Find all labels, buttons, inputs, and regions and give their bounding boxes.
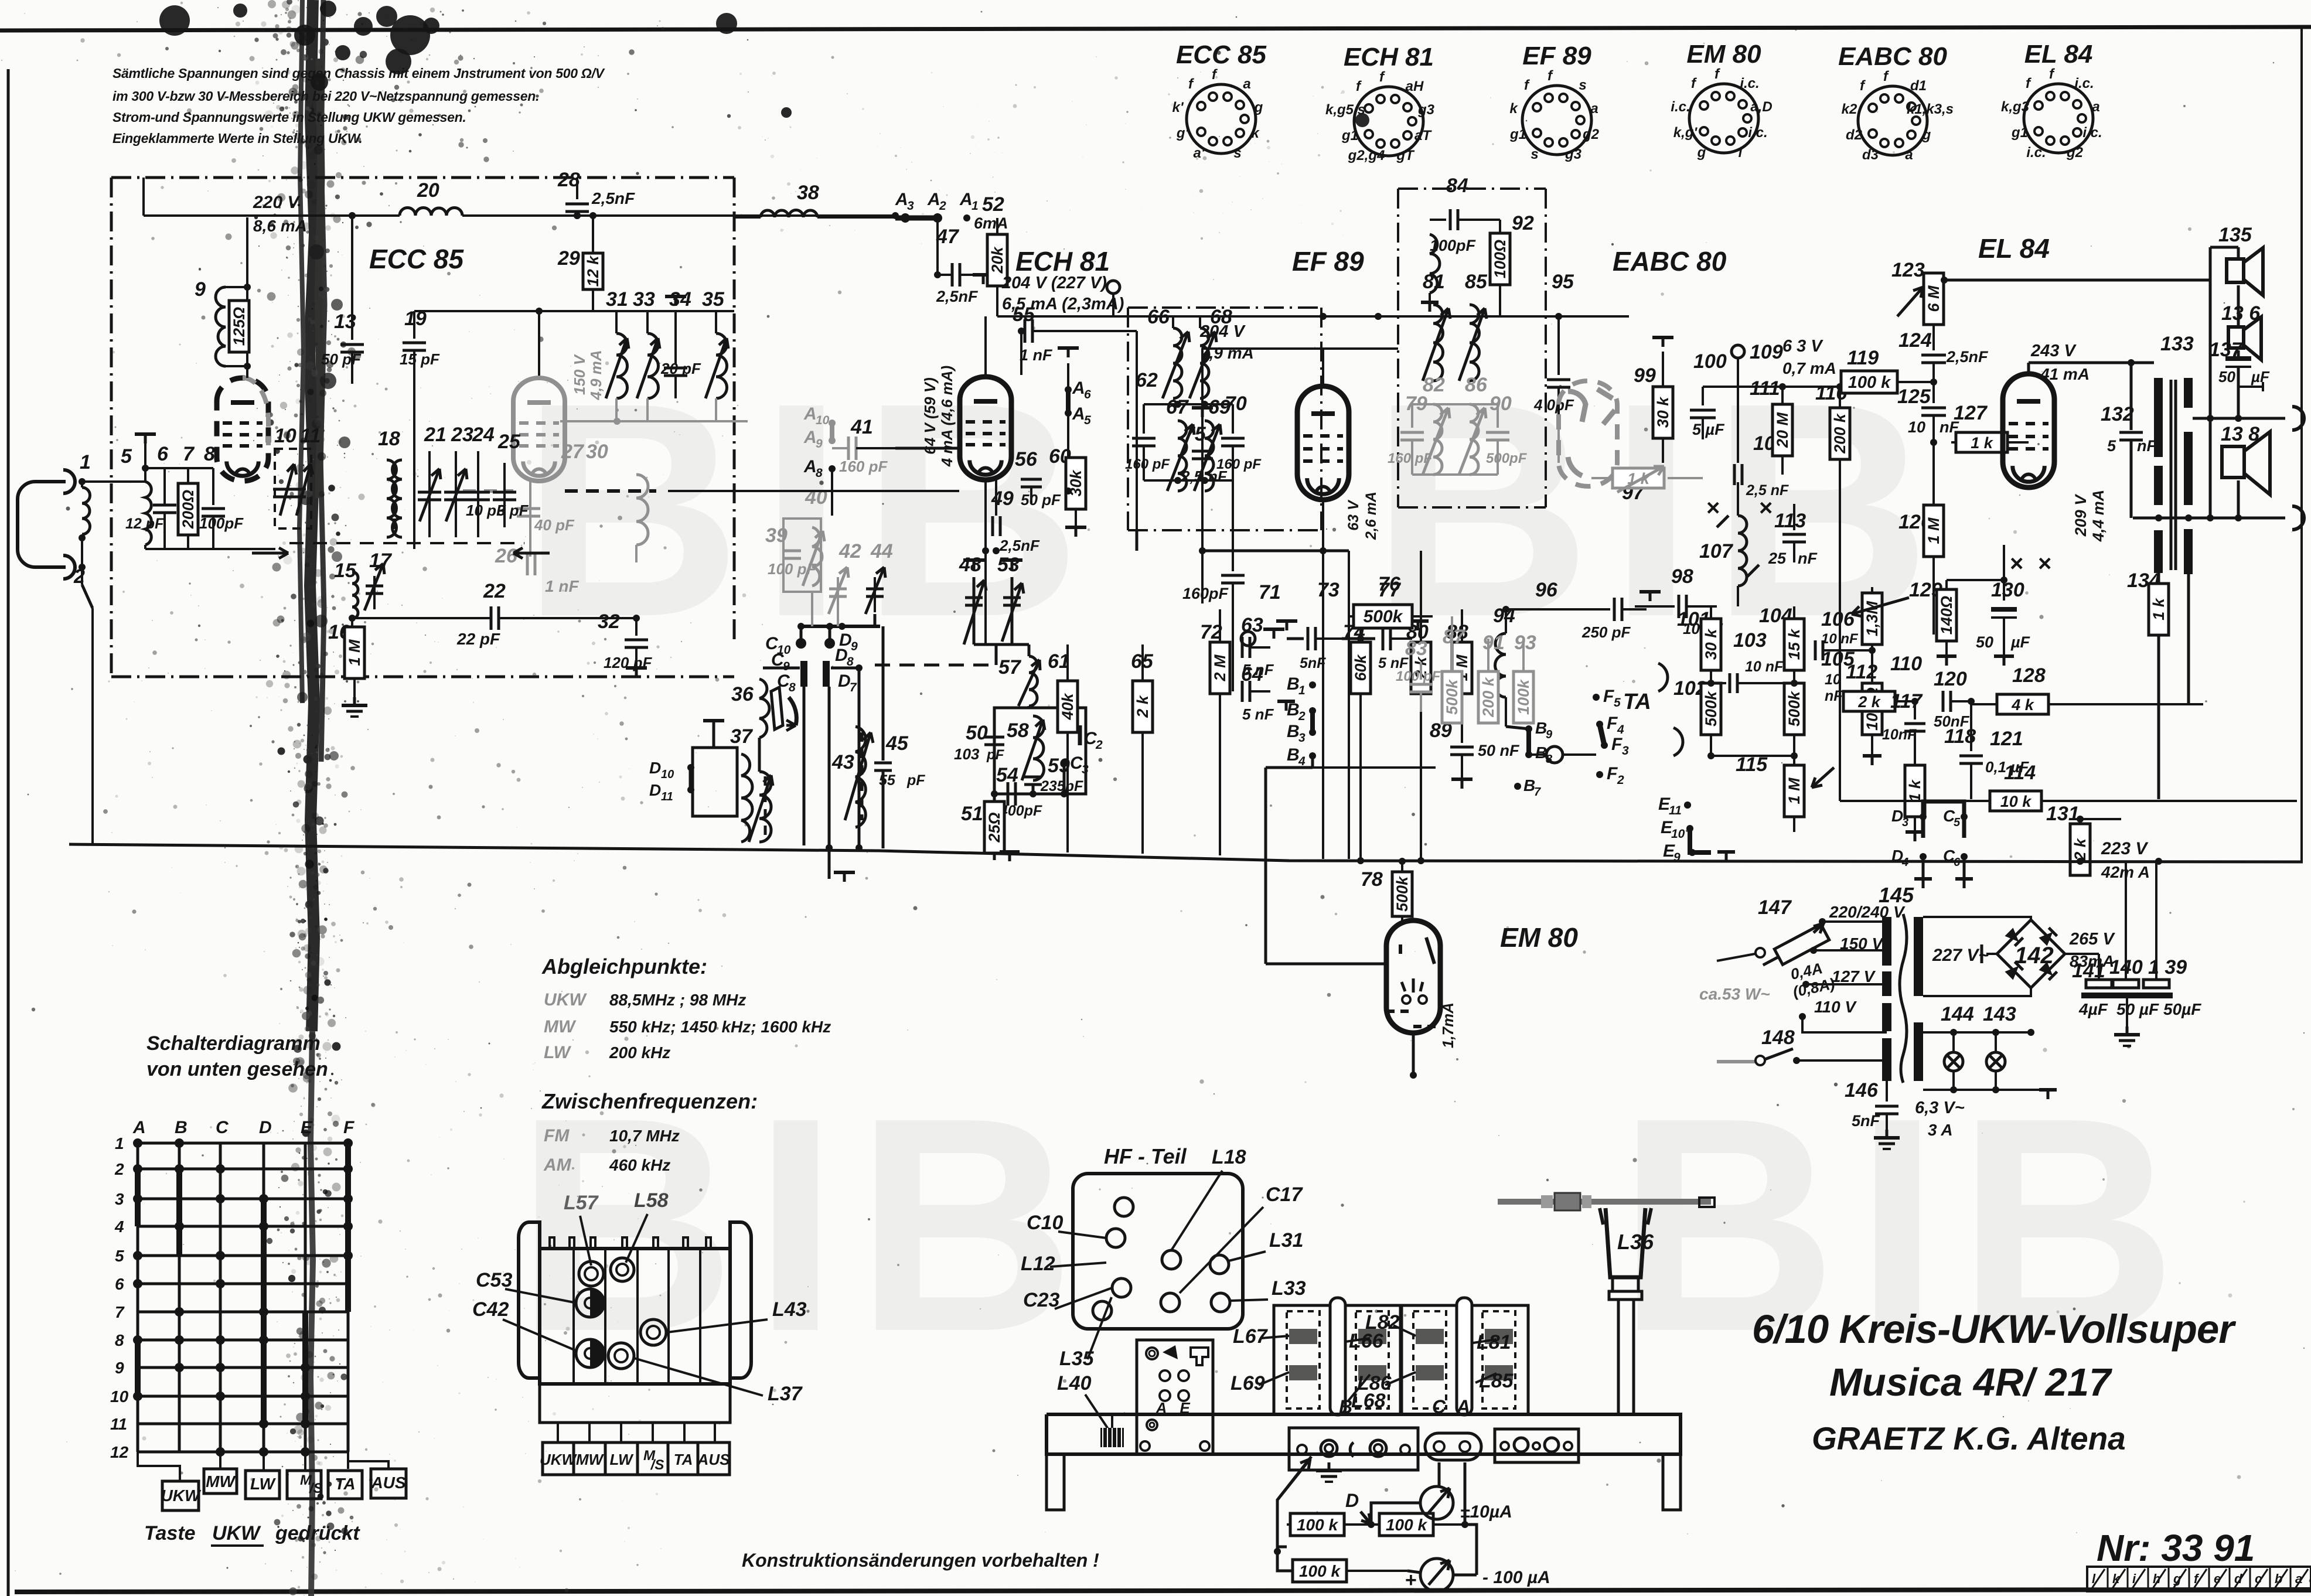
coil pack dividers <box>572 1249 575 1384</box>
svg-text:4,4 mA: 4,4 mA <box>2090 490 2107 543</box>
tube socket EABC 80 <box>1858 86 1927 155</box>
svg-text:50 pF: 50 pF <box>321 350 362 368</box>
svg-text:132: 132 <box>2101 403 2134 425</box>
meter +-10uA <box>1420 1486 1453 1519</box>
svg-text:75: 75 <box>1184 423 1206 445</box>
svg-text:D: D <box>649 781 661 799</box>
svg-text:g': g' <box>1176 125 1189 141</box>
svg-text:92: 92 <box>1512 212 1534 234</box>
svg-text:nF: nF <box>1798 550 1818 567</box>
svg-text:4 k: 4 k <box>2011 696 2035 714</box>
svg-text:7: 7 <box>1534 786 1541 799</box>
svg-text:10: 10 <box>1671 827 1685 841</box>
junction <box>892 212 899 219</box>
svg-text:pF: pF <box>906 772 925 789</box>
svg-text:1 M: 1 M <box>1785 777 1803 804</box>
svg-text:131: 131 <box>2046 803 2080 825</box>
svg-text:UKW: UKW <box>212 1522 261 1544</box>
svg-text:k': k' <box>1172 100 1184 115</box>
svg-text:140Ω: 140Ω <box>1938 596 1955 635</box>
AM dashed bus with arrows <box>289 542 524 544</box>
svg-text:EM 80: EM 80 <box>1686 40 1761 69</box>
svg-text:10: 10 <box>1825 671 1841 688</box>
svg-text:Musica 4R/ 217: Musica 4R/ 217 <box>1829 1360 2112 1404</box>
svg-text:125: 125 <box>1897 386 1931 408</box>
terminal circle mid <box>1241 632 1255 646</box>
svg-text:5: 5 <box>2107 437 2116 455</box>
svg-text:50 pF: 50 pF <box>1021 491 1061 509</box>
svg-text:TA: TA <box>335 1475 355 1493</box>
core lines <box>2170 380 2173 570</box>
svg-text:D: D <box>838 671 851 691</box>
svg-text:4 mA (4,6 mA): 4 mA (4,6 mA) <box>938 366 956 467</box>
svg-text:L57: L57 <box>564 1192 599 1214</box>
svg-text:5: 5 <box>1614 696 1621 710</box>
svg-text:10,7 MHz: 10,7 MHz <box>609 1127 680 1145</box>
svg-text:3: 3 <box>1622 744 1629 758</box>
svg-text:F: F <box>1607 764 1618 783</box>
svg-text:7: 7 <box>115 1303 125 1321</box>
svg-text:A: A <box>803 457 817 476</box>
svg-text:ECH 81: ECH 81 <box>1015 246 1110 277</box>
svg-text:g2: g2 <box>2066 145 2084 161</box>
HF-Teil box <box>1073 1174 1243 1329</box>
svg-text:C: C <box>216 1118 229 1137</box>
triode ECC85 b (gray) <box>513 378 565 481</box>
terminal circle <box>1107 281 1120 294</box>
svg-text:2: 2 <box>1617 773 1624 787</box>
chassis legs <box>1047 1454 1064 1510</box>
svg-text:C17: C17 <box>1266 1184 1303 1206</box>
svg-text:a: a <box>2092 99 2099 115</box>
svg-text:100 k: 100 k <box>1848 373 1891 392</box>
coil pack body <box>527 1222 554 1266</box>
svg-text:FM: FM <box>544 1126 570 1145</box>
svg-text:AUS: AUS <box>697 1451 731 1468</box>
UKW tuner dash-dot box <box>111 176 734 179</box>
svg-text:64: 64 <box>1241 663 1263 686</box>
100k resistors <box>1290 1513 1344 1536</box>
svg-text:Strom-und Spannungswerte in St: Strom-und Spannungswerte in Stellung UKW… <box>113 110 466 125</box>
svg-text:26: 26 <box>495 545 518 567</box>
svg-text:148: 148 <box>1761 1027 1795 1049</box>
svg-text:d1: d1 <box>1910 78 1927 94</box>
svg-text:EM 80: EM 80 <box>1500 922 1578 953</box>
svg-text:AUS: AUS <box>370 1474 405 1492</box>
svg-text:L18: L18 <box>1212 1146 1246 1168</box>
svg-text:L12: L12 <box>1021 1253 1055 1275</box>
svg-text:A: A <box>803 404 817 424</box>
svg-text:gT: gT <box>1396 148 1415 163</box>
svg-text:A: A <box>1072 404 1085 424</box>
svg-text:×: × <box>2038 551 2051 577</box>
svg-text:160 pF: 160 pF <box>1125 456 1170 472</box>
svg-text:D: D <box>835 646 848 665</box>
svg-text:58: 58 <box>1007 719 1029 742</box>
svg-text:a: a <box>1243 76 1250 92</box>
svg-text:8: 8 <box>204 443 215 465</box>
svg-text:48: 48 <box>959 554 981 576</box>
EF89 cathode down <box>1322 500 1324 859</box>
svg-text:40: 40 <box>805 486 827 509</box>
svg-text:8: 8 <box>789 681 796 694</box>
svg-text:F: F <box>1607 714 1618 733</box>
svg-text:F: F <box>343 1118 355 1137</box>
ferrite slug 36 <box>771 687 783 729</box>
svg-text:1 M: 1 M <box>346 639 363 666</box>
svg-text:1 k: 1 k <box>1906 779 1924 802</box>
svg-text:125Ω: 125Ω <box>230 307 248 346</box>
EF89 feed wire <box>1202 347 1398 350</box>
terminals C10 D9 <box>800 626 803 640</box>
svg-text:aH: aH <box>1406 79 1424 94</box>
verticals down to bus <box>803 687 806 845</box>
svg-text:3: 3 <box>1298 731 1306 745</box>
svg-text:9: 9 <box>115 1359 124 1377</box>
knob L37 <box>608 1343 634 1369</box>
svg-text:160 pF: 160 pF <box>839 458 888 475</box>
svg-text:127: 127 <box>1954 402 1988 424</box>
svg-text:20 pF: 20 pF <box>660 360 701 377</box>
svg-text:5nF: 5nF <box>1300 655 1326 671</box>
svg-text:k: k <box>1251 125 1260 141</box>
svg-text:C10: C10 <box>1027 1212 1063 1234</box>
mid junction line <box>2193 417 2285 420</box>
svg-text:35: 35 <box>702 288 725 311</box>
svg-text:265 V: 265 V <box>2069 930 2115 949</box>
svg-text:2,5nF: 2,5nF <box>936 288 979 305</box>
svg-text:EL 84: EL 84 <box>1978 233 2050 264</box>
svg-text:200 k: 200 k <box>1480 676 1497 718</box>
svg-text:k,g3: k,g3 <box>2001 99 2030 115</box>
svg-text:100 pF: 100 pF <box>1396 669 1441 684</box>
svg-text:500k: 500k <box>1393 875 1411 912</box>
svg-text:147: 147 <box>1758 896 1792 919</box>
svg-text:85: 85 <box>1465 271 1488 293</box>
svg-text:56: 56 <box>1015 448 1038 470</box>
svg-text:49: 49 <box>991 487 1014 510</box>
svg-text:B: B <box>1339 1396 1352 1417</box>
svg-text:100k: 100k <box>1515 678 1532 715</box>
svg-text:3: 3 <box>907 199 914 213</box>
svg-text:×: × <box>1759 495 1773 521</box>
svg-text:10 nF: 10 nF <box>1821 631 1859 647</box>
svg-text:5: 5 <box>1954 816 1961 829</box>
svg-text:223 V: 223 V <box>2101 839 2149 858</box>
svg-text:121: 121 <box>1990 728 2023 750</box>
svg-text:81: 81 <box>1423 271 1445 293</box>
svg-text:L37: L37 <box>768 1383 803 1405</box>
svg-text:40 pF: 40 pF <box>534 516 575 534</box>
svg-text:2,5nF: 2,5nF <box>591 189 635 207</box>
svg-text:15 pF: 15 pF <box>400 350 440 368</box>
svg-text:8: 8 <box>816 466 823 480</box>
svg-text:110 V: 110 V <box>1814 998 1857 1016</box>
svg-text:120 pF: 120 pF <box>604 654 652 671</box>
svg-text:150 V: 150 V <box>571 353 588 395</box>
primary bar left <box>2154 378 2163 457</box>
svg-text:1: 1 <box>1298 684 1306 697</box>
bottom line <box>2133 517 2285 520</box>
border frame left <box>7 69 10 1596</box>
svg-text:×: × <box>1706 495 1720 521</box>
svg-text:L58: L58 <box>634 1189 669 1212</box>
EM80 tube <box>1386 920 1440 1033</box>
svg-text:5: 5 <box>121 445 132 468</box>
right panel <box>1495 1429 1579 1462</box>
border frame top <box>0 27 2311 30</box>
diffuse speckle left band <box>496 647 496 647</box>
svg-text:100 k: 100 k <box>1297 1516 1338 1534</box>
svg-text:500k: 500k <box>1702 690 1720 727</box>
svg-text:1 39: 1 39 <box>2148 956 2187 978</box>
svg-text:53: 53 <box>997 554 1020 576</box>
gray grid wire <box>463 489 513 493</box>
svg-text:TA: TA <box>674 1451 693 1468</box>
svg-text:123: 123 <box>1891 259 1925 281</box>
svg-text:124: 124 <box>1898 329 1932 352</box>
svg-text:200 k: 200 k <box>1831 412 1849 454</box>
svg-text:8,6 mA: 8,6 mA <box>253 217 307 235</box>
svg-text:L33: L33 <box>1272 1277 1306 1300</box>
wires from bus to caps <box>2125 861 2127 980</box>
svg-text:250 pF: 250 pF <box>1581 623 1631 641</box>
svg-text:11: 11 <box>300 425 321 447</box>
cap 40pF at 95 <box>1557 316 1560 375</box>
svg-text:3: 3 <box>1902 816 1908 829</box>
svg-text:2 k: 2 k <box>2071 837 2089 861</box>
svg-text:C: C <box>1432 1396 1446 1417</box>
svg-text:Schalterdiagramm: Schalterdiagramm <box>146 1032 321 1055</box>
buttons row <box>162 1481 199 1510</box>
knob C42 trimmer <box>576 1339 604 1367</box>
svg-text:99: 99 <box>1634 364 1656 387</box>
svg-text:k1,k3,s: k1,k3,s <box>1907 101 1954 117</box>
svg-text:MW: MW <box>544 1017 577 1036</box>
wire antenna to coil 5 <box>82 480 145 483</box>
svg-text:2,5nF: 2,5nF <box>1946 348 1989 366</box>
svg-text:5: 5 <box>115 1247 124 1265</box>
wire 119 to 123 column <box>1930 378 1937 386</box>
svg-text:7: 7 <box>850 681 857 694</box>
gray coupling wire <box>560 420 748 422</box>
svg-text:nF: nF <box>1825 688 1843 704</box>
svg-text:10 nF: 10 nF <box>1745 659 1784 675</box>
svg-text:D: D <box>649 759 661 777</box>
svg-text:21: 21 <box>424 424 446 446</box>
svg-text:78: 78 <box>1361 868 1383 891</box>
svg-text:Abgleichpunkte:: Abgleichpunkte: <box>541 954 707 978</box>
svg-text:k: k <box>1509 101 1518 117</box>
svg-text:im 300 V-bzw 30 V-Messbereich: im 300 V-bzw 30 V-Messbereich bei 220 V~… <box>113 88 539 104</box>
svg-text:12: 12 <box>110 1443 129 1461</box>
bottom rail with arrow <box>145 548 275 550</box>
svg-text:227 V~: 227 V~ <box>1932 946 1989 965</box>
svg-text:119: 119 <box>1847 347 1879 369</box>
svg-text:460 kHz: 460 kHz <box>609 1156 670 1174</box>
svg-text:36: 36 <box>731 683 754 705</box>
svg-text:10: 10 <box>1908 418 1925 436</box>
svg-text:L82: L82 <box>1365 1311 1400 1334</box>
svg-text:6 3 V: 6 3 V <box>1782 337 1823 356</box>
svg-text:64 V (59 V): 64 V (59 V) <box>921 377 939 455</box>
svg-text:9: 9 <box>851 640 858 653</box>
svg-text:50 µF: 50 µF <box>2116 1000 2159 1018</box>
svg-text:25Ω: 25Ω <box>986 812 1003 843</box>
ink stain vertical streak <box>299 0 325 1596</box>
svg-text:109: 109 <box>1750 341 1783 363</box>
svg-text:38: 38 <box>797 182 819 204</box>
svg-text:k2: k2 <box>1842 101 1857 117</box>
svg-text:23: 23 <box>451 424 473 446</box>
svg-text:30 k: 30 k <box>1654 396 1672 428</box>
svg-text:4µF: 4µF <box>2078 1000 2108 1018</box>
svg-text:45: 45 <box>885 732 909 755</box>
svg-text:1 M: 1 M <box>1925 517 1942 544</box>
svg-text:111: 111 <box>1750 377 1780 400</box>
svg-text:9: 9 <box>816 437 823 451</box>
tube socket ECH 81 <box>1354 87 1423 156</box>
svg-text:6: 6 <box>115 1275 124 1293</box>
antenna connectors <box>63 470 75 493</box>
svg-text:6mA: 6mA <box>974 214 1008 232</box>
measurement circuit <box>1277 1457 1311 1547</box>
svg-text:41: 41 <box>850 416 873 438</box>
svg-text:i.c.: i.c. <box>2026 145 2046 161</box>
main bus <box>69 844 2303 862</box>
svg-text:L69: L69 <box>1231 1372 1265 1394</box>
svg-text:5 nF: 5 nF <box>1242 705 1274 723</box>
EF89 tube <box>1297 386 1349 500</box>
svg-text:k,g': k,g' <box>1673 125 1698 141</box>
svg-text:93: 93 <box>1514 632 1536 654</box>
svg-text:110: 110 <box>1890 653 1922 675</box>
svg-text:160 pF: 160 pF <box>1388 451 1433 466</box>
border frame bottom <box>15 1590 2311 1592</box>
svg-text:86: 86 <box>1465 374 1488 396</box>
svg-text:135: 135 <box>2218 224 2252 246</box>
svg-text:4: 4 <box>114 1218 124 1236</box>
svg-text:112: 112 <box>1846 661 1877 683</box>
grid bus of triode 2 <box>414 310 734 312</box>
svg-text:50: 50 <box>1976 633 1993 651</box>
svg-text:55: 55 <box>879 772 896 789</box>
svg-text:50nF: 50nF <box>1934 712 1970 730</box>
svg-text:g: g <box>1922 127 1931 143</box>
grid1 wire to osc <box>984 480 987 644</box>
svg-text:6: 6 <box>1084 388 1091 401</box>
svg-text:10: 10 <box>661 768 674 781</box>
svg-text:51: 51 <box>961 803 983 825</box>
svg-text:500k: 500k <box>1364 607 1403 626</box>
svg-text:i.c.: i.c. <box>1740 76 1759 91</box>
svg-text:Zwischenfrequenzen:: Zwischenfrequenzen: <box>541 1089 758 1113</box>
svg-text:3: 3 <box>1082 763 1089 776</box>
svg-text:µF: µF <box>2010 633 2031 651</box>
svg-text:Nr: 33 91: Nr: 33 91 <box>2097 1527 2255 1569</box>
svg-text:160pF: 160pF <box>1182 585 1229 602</box>
svg-text:L43: L43 <box>772 1298 807 1321</box>
terminal circle b8 <box>1546 746 1563 763</box>
svg-text:ECH 81: ECH 81 <box>1344 43 1434 71</box>
svg-text:µF: µF <box>2251 368 2270 386</box>
svg-text:LW: LW <box>250 1475 277 1493</box>
svg-text:g1: g1 <box>2011 125 2028 141</box>
svg-text:F: F <box>1611 735 1623 754</box>
wire 220V to tube <box>246 217 248 280</box>
switch grid lines <box>137 1143 139 1452</box>
svg-text:C53: C53 <box>476 1269 512 1291</box>
svg-text:6: 6 <box>157 443 169 465</box>
svg-text:3 A: 3 A <box>1928 1121 1953 1139</box>
svg-text:20k: 20k <box>989 245 1006 274</box>
heater wire <box>1703 386 1840 388</box>
svg-text:22 pF: 22 pF <box>456 630 500 648</box>
secondary small bars <box>1914 1032 1922 1066</box>
wire from dash-dot box left <box>144 214 247 217</box>
svg-text:113: 113 <box>1774 510 1806 532</box>
svg-text:10: 10 <box>110 1387 129 1406</box>
svg-text:25: 25 <box>497 431 521 453</box>
svg-text:62: 62 <box>1136 369 1158 391</box>
ECH81 anode drop to IF can <box>1136 530 1139 551</box>
EABC80 tube gray <box>1559 381 1617 486</box>
svg-text:D: D <box>1345 1490 1359 1511</box>
ECH81 tube <box>960 377 1011 480</box>
svg-text:1 nF: 1 nF <box>1020 346 1053 364</box>
svg-text:g3: g3 <box>1417 102 1435 118</box>
pot 1.3M 104 arrow <box>1871 587 1873 593</box>
svg-text:6 M: 6 M <box>1925 285 1942 312</box>
svg-text:60k: 60k <box>1352 653 1369 681</box>
svg-text:220/240 V: 220/240 V <box>1829 903 1906 921</box>
svg-text:Eingeklammerte Werte in Stellu: Eingeklammerte Werte in Stellung UKW. <box>113 131 362 146</box>
svg-text:F: F <box>1603 687 1614 706</box>
svg-text:43: 43 <box>831 751 854 773</box>
dashed link <box>875 664 996 667</box>
taps <box>1819 918 1826 925</box>
tube socket EM 80 <box>1689 84 1758 153</box>
svg-text:114: 114 <box>2004 762 2036 784</box>
svg-text:Konstruktionsänderungen vorbe: Konstruktionsänderungen vorbehalten ! <box>742 1550 1099 1571</box>
svg-text:200Ω: 200Ω <box>179 490 197 529</box>
svg-text:130: 130 <box>1991 579 2024 601</box>
L40 knurled screw <box>1100 1428 1124 1447</box>
svg-text:GRAETZ K.G. Altena: GRAETZ K.G. Altena <box>1812 1420 2126 1457</box>
svg-text:103: 103 <box>954 745 980 763</box>
svg-text:g1: g1 <box>1341 128 1358 144</box>
knob L58 <box>611 1258 634 1281</box>
svg-text:s: s <box>1579 77 1586 93</box>
svg-text:20: 20 <box>417 179 439 202</box>
svg-text:g3: g3 <box>1564 146 1582 162</box>
svg-text:1 nF: 1 nF <box>545 577 579 595</box>
svg-text:C23: C23 <box>1023 1289 1059 1311</box>
svg-text:100pF: 100pF <box>199 514 244 532</box>
svg-text:A: A <box>1456 1396 1470 1417</box>
svg-text:3: 3 <box>115 1190 124 1208</box>
primary top wire <box>1822 917 1887 922</box>
svg-text:a': a' <box>1193 145 1205 161</box>
svg-text:96: 96 <box>1535 579 1558 601</box>
svg-text:g2,g4: g2,g4 <box>1348 148 1385 163</box>
svg-text:500k: 500k <box>1785 690 1803 727</box>
secondary to bridge <box>1923 920 2031 922</box>
svg-text:31: 31 <box>606 288 628 311</box>
svg-text:100 k: 100 k <box>1299 1562 1341 1580</box>
svg-text:TA: TA <box>1623 690 1651 714</box>
svg-text:pF: pF <box>986 747 1005 763</box>
